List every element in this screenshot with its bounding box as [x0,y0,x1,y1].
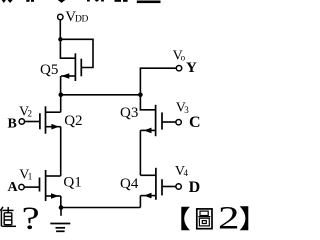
svg-text:2: 2 [218,201,240,236]
wire: Q2 source to Q1 drain [60,127,62,176]
wire: ground stem [60,208,62,216]
ground [50,224,70,232]
svg-text:Q1: Q1 [63,175,81,191]
svg-text:Y: Y [186,60,197,76]
wire: output node rail [61,94,141,96]
VDD label [65,9,88,25]
transistor Q1 [40,170,61,201]
wire: Q5 drain [60,39,74,58]
svg-text:A: A [8,180,19,195]
svg-text:Q3: Q3 [120,105,138,121]
wire: Q4 drain lead [140,174,156,176]
svg-text:Q2: Q2 [64,113,82,129]
transistor Q5 [61,53,81,81]
wire: ground rail [61,207,140,209]
input terminal D [176,184,181,189]
label V3 [176,101,190,116]
caption Chinese 圖 [197,209,212,229]
label V2 [19,105,32,120]
wire: Q3 source to Q4 drain [139,130,141,175]
svg-text:2: 2 [28,109,33,119]
svg-text:B: B [8,116,17,131]
wire: Q4 source to ground rail [139,196,141,208]
wire: D gate lead [162,186,176,188]
wire: node to output terminal Y [140,68,176,95]
svg-text:D: D [189,179,201,196]
input terminal B [19,119,24,124]
wire: Q1 source to ground junction [60,196,62,208]
svg-text:DD: DD [75,15,89,25]
label V4 [175,164,189,179]
output terminal Y [176,66,181,71]
node: output node right junction [138,93,143,98]
node: output node left junction [59,92,64,97]
label Vo [173,48,186,63]
svg-text:Q5: Q5 [40,62,58,78]
label V1 [19,168,32,183]
wire: Q3 drain to output node [140,95,155,110]
wire: Q5 source to output node [60,76,62,95]
wire: Q2 drain to output node [60,95,62,112]
wire: VDD stem [59,20,61,40]
node: VDD junction [58,37,62,41]
transistor Q2 [40,106,61,133]
wire: Q5 gate to VDD junction [60,39,93,67]
VDD terminal [58,14,63,19]
svg-text:C: C [189,114,201,131]
svg-text:?: ? [22,201,40,236]
node: ground junction [59,205,64,210]
clipped Chinese text 値 (bottom left) [0,207,16,227]
wire: A gate lead [24,186,39,188]
input terminal A [19,184,24,189]
transistor Q4 [140,168,162,200]
transistor Q3 [140,105,162,136]
svg-text:4: 4 [184,168,189,178]
svg-text:o: o [181,53,186,63]
svg-text:1: 1 [28,172,33,182]
caption bracket 】 [240,206,249,230]
clipped text fragments (top edge) [2,0,161,3]
wire: C gate lead [162,121,176,123]
caption bracket 【 [181,207,190,231]
wire: B gate lead [25,121,40,123]
svg-text:Q4: Q4 [120,176,139,192]
input terminal C [176,120,181,125]
